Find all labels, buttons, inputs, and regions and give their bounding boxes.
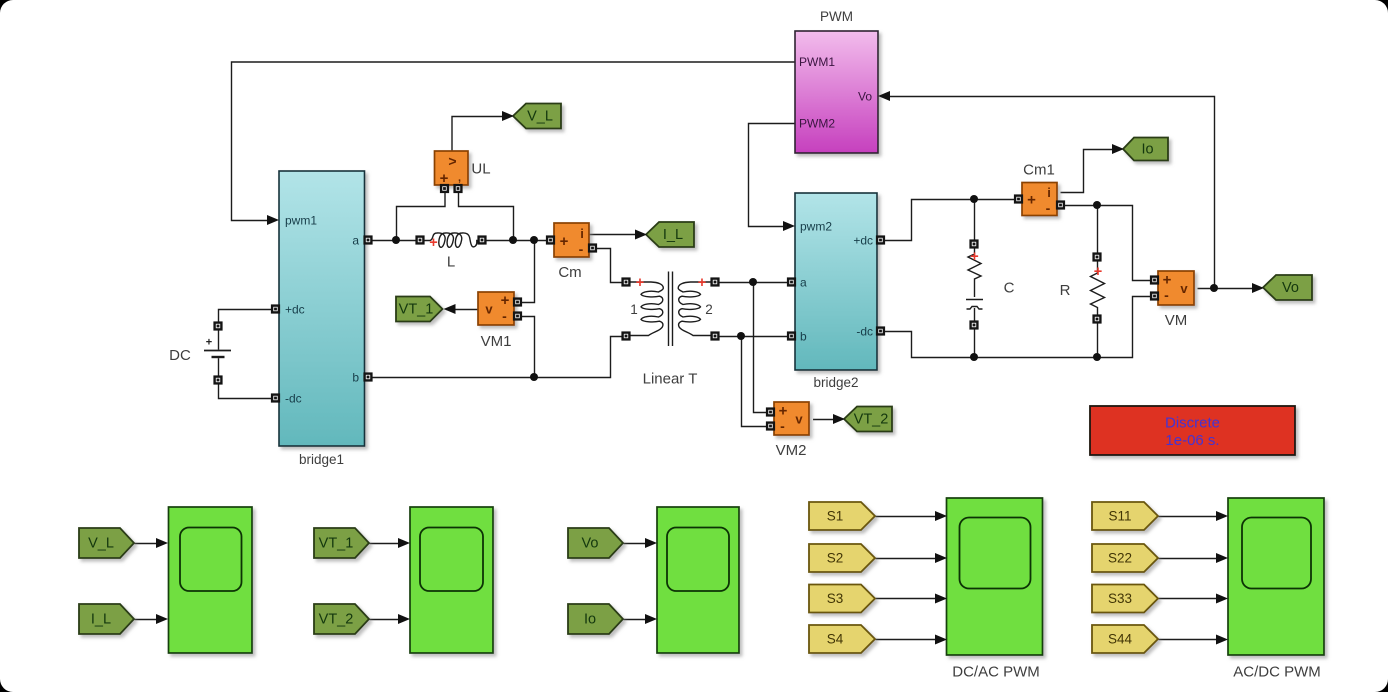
Discrete solver block	[1090, 406, 1295, 455]
port square VM2 minus	[767, 423, 774, 430]
svg-text:VT_2: VT_2	[319, 612, 354, 628]
port square UL in2	[455, 185, 462, 192]
svg-text:AC/DC PWM: AC/DC PWM	[1233, 664, 1321, 681]
wire transformer winding2 bottom to bridge2 b	[719, 336, 789, 338]
wire node D to VM2 minus	[742, 337, 768, 427]
scope2 VT_1 VT_2	[410, 507, 493, 653]
wire capacitor C bottom drop	[974, 329, 976, 358]
wire Cm minus to transformer winding1 top	[593, 249, 624, 283]
wire bridge1 a to inductor L	[366, 240, 418, 242]
junction Vo feedback	[1210, 284, 1218, 292]
svg-text:-: -	[579, 241, 584, 257]
svg-text:a: a	[800, 276, 807, 290]
wire inductor L to Cm plus	[486, 240, 552, 242]
junction top rail R	[1093, 201, 1101, 209]
port square VM1 minus	[514, 313, 521, 320]
voltage sensor UL	[435, 151, 469, 185]
svg-text:v: v	[485, 302, 493, 317]
svg-text:-: -	[780, 418, 785, 434]
arrowhead scope4 in4	[935, 635, 947, 645]
svg-text:I_L: I_L	[91, 612, 111, 628]
goto tag I_L	[646, 222, 694, 247]
port square UL in1	[441, 185, 448, 192]
junction node C	[749, 278, 757, 286]
svg-text:Cm1: Cm1	[1023, 162, 1055, 179]
arrowhead into I_L goto	[635, 230, 647, 240]
wire UL right tap	[459, 189, 514, 241]
inductor L	[417, 233, 479, 247]
wire Vo from to scope3	[624, 543, 648, 545]
linear transformer winding 2	[678, 282, 715, 336]
svg-text:+: +	[636, 275, 644, 291]
svg-text:pwm2: pwm2	[800, 220, 832, 234]
svg-text:+: +	[1163, 272, 1172, 289]
svg-text:+dc: +dc	[285, 303, 305, 317]
svg-text:DC: DC	[169, 347, 191, 364]
wire S3 to scope4	[876, 598, 938, 600]
port square transformer 2 bottom	[712, 333, 719, 340]
junction node B	[530, 373, 538, 381]
port square L left	[417, 237, 424, 244]
svg-text:S44: S44	[1108, 632, 1133, 647]
linear transformer core	[669, 272, 673, 347]
wire S1 to scope4	[876, 516, 938, 518]
svg-text:b: b	[800, 330, 807, 344]
arrowhead into PWM Vo input	[878, 91, 890, 101]
voltage sensor VM2	[774, 402, 809, 435]
wire V_L from to scope1	[135, 543, 159, 545]
arrowhead scope2 in2	[398, 614, 410, 624]
svg-text:+dc: +dc	[853, 234, 873, 248]
wire UL left tap	[397, 189, 446, 241]
svg-text:-: -	[502, 308, 507, 324]
arrowhead scope1 in1	[156, 538, 168, 548]
port square bridge2 -dc	[877, 328, 884, 335]
arrowhead into VT_1 goto	[444, 304, 456, 314]
svg-text:PWM2: PWM2	[799, 117, 835, 131]
arrowhead scope3 in1	[645, 538, 657, 548]
svg-text:+: +	[560, 233, 569, 250]
DC source battery	[204, 330, 231, 377]
svg-text:V_L: V_L	[527, 109, 553, 125]
goto tag V_L	[513, 104, 561, 129]
svg-text:S4: S4	[827, 632, 844, 647]
voltage sensor VM	[1158, 271, 1194, 305]
arrowhead scope3 in2	[645, 614, 657, 624]
svg-text:S3: S3	[827, 591, 844, 606]
port square R bottom	[1094, 316, 1101, 323]
port square Cm plus	[547, 237, 554, 244]
svg-text:R: R	[1060, 282, 1071, 299]
arrowhead into bridge1 pwm1	[267, 215, 279, 225]
wire DC source minus to bridge1 -dc	[219, 384, 273, 399]
wire node C to VM2 plus	[754, 283, 768, 413]
arrowhead scope5 in3	[1216, 594, 1228, 604]
scope1 V_L I_L	[169, 507, 253, 653]
svg-text:-dc: -dc	[285, 392, 302, 406]
wire bridge2 -dc bottom rail to VM minus	[882, 297, 1153, 358]
wire DC source plus to bridge1 +dc	[219, 310, 273, 324]
svg-text:+: +	[698, 275, 706, 291]
arrowhead scope4 in2	[935, 553, 947, 563]
port square VM2 plus	[767, 409, 774, 416]
wire Cm1 minus rail to VM plus	[1061, 206, 1153, 281]
svg-text:DC/AC PWM: DC/AC PWM	[952, 664, 1040, 681]
wire bridge1 b rail to transformer winding1 bottom	[366, 337, 624, 378]
from tag S3	[809, 585, 875, 613]
svg-text:-: -	[1046, 200, 1051, 216]
linear transformer winding 1	[626, 282, 663, 336]
port square bridge2 +dc	[877, 237, 884, 244]
arrowhead scope2 in1	[398, 538, 410, 548]
port square bridge1 a	[365, 237, 372, 244]
arrowhead into V_L goto	[502, 111, 514, 121]
wire UL output to V_L goto	[452, 117, 504, 154]
svg-text:S1: S1	[827, 509, 844, 524]
port square VM1 plus	[514, 299, 521, 306]
port square bridge2 a	[788, 279, 795, 286]
from tag Vo	[568, 528, 623, 558]
port square transformer 1 bottom	[623, 333, 630, 340]
svg-text:v: v	[1180, 281, 1188, 296]
svg-text:VT_1: VT_1	[399, 302, 434, 318]
svg-text:+: +	[970, 249, 978, 265]
port square VM minus	[1151, 293, 1158, 300]
svg-text:b: b	[352, 371, 359, 385]
wire PWM2 to bridge2 pwm2	[749, 124, 796, 227]
wire Vo feedback to PWM Vo input	[890, 97, 1215, 289]
wire VM1 minus to node B	[518, 317, 535, 378]
svg-text:PWM1: PWM1	[799, 55, 835, 69]
svg-text:pwm1: pwm1	[285, 214, 317, 228]
arrowhead scope4 in3	[935, 594, 947, 604]
arrowhead into VT_2 goto	[833, 414, 845, 424]
wire S2 to scope4	[876, 558, 938, 560]
scope5 AC/DC PWM	[1228, 498, 1324, 655]
svg-text:,: ,	[458, 172, 461, 184]
wire bridge2 +dc to top rail and Cm1 plus	[882, 200, 1016, 241]
arrowhead scope4 in1	[935, 511, 947, 521]
port square L right	[479, 237, 486, 244]
svg-text:bridge1: bridge1	[299, 452, 344, 467]
from tag VT_2	[314, 604, 369, 634]
from tag S11	[1092, 502, 1158, 530]
wire S44 to scope5	[1159, 639, 1219, 641]
from tag S2	[809, 544, 875, 572]
port square C top	[971, 241, 978, 248]
svg-text:UL: UL	[471, 161, 490, 178]
port square R top	[1094, 254, 1101, 261]
resistor R element	[1091, 261, 1105, 316]
arrowhead scope5 in1	[1216, 511, 1228, 521]
svg-text:bridge2: bridge2	[813, 375, 858, 390]
svg-text:1e-06 s.: 1e-06 s.	[1165, 432, 1219, 449]
svg-text:V_L: V_L	[88, 536, 114, 552]
goto tag Vo	[1263, 275, 1312, 300]
port square VM plus	[1151, 277, 1158, 284]
wire S4 to scope4	[876, 639, 938, 641]
svg-text:Discrete: Discrete	[1165, 415, 1220, 432]
svg-text:Cm: Cm	[558, 264, 581, 281]
svg-text:+: +	[1094, 264, 1102, 280]
port square bridge1 b	[365, 374, 372, 381]
arrowhead scope5 in2	[1216, 553, 1228, 563]
wire S22 to scope5	[1159, 558, 1219, 560]
wire Cm1 i output to Io goto	[1061, 150, 1114, 193]
arrowhead scope5 in4	[1216, 635, 1228, 645]
arrowhead scope1 in2	[156, 614, 168, 624]
svg-text:Io: Io	[584, 612, 596, 628]
svg-text:i: i	[1047, 185, 1051, 200]
port square Cm minus	[589, 245, 596, 252]
wire VM v output to Vo goto	[1198, 288, 1254, 290]
svg-text:-dc: -dc	[856, 325, 873, 339]
port square Cm1 plus	[1015, 196, 1022, 203]
voltage sensor VM1	[478, 292, 514, 325]
svg-text:VM1: VM1	[481, 333, 512, 350]
port square Cm1 minus	[1057, 202, 1064, 209]
wire VM2 v output to VT_2 goto	[813, 419, 835, 421]
current sensor Cm	[554, 223, 589, 257]
svg-text:v: v	[795, 412, 803, 427]
junction node A2	[509, 236, 517, 244]
wire VT_1 from to scope2	[370, 543, 401, 545]
wire resistor R top drop	[1097, 206, 1099, 255]
svg-text:>: >	[448, 153, 456, 169]
svg-text:S22: S22	[1108, 551, 1132, 566]
port square battery plus	[215, 323, 222, 330]
port square battery minus	[215, 377, 222, 384]
junction node D	[737, 332, 745, 340]
wire PWM1 to bridge1 pwm1	[232, 62, 796, 221]
wire Io from to scope3	[624, 619, 648, 621]
svg-text:Vo: Vo	[582, 536, 599, 552]
arrowhead into Io goto	[1112, 144, 1124, 154]
goto tag Io	[1123, 138, 1168, 161]
from tag V_L	[79, 528, 134, 558]
wire VM1 v output to VT_1 goto	[447, 309, 479, 311]
svg-text:VT_2: VT_2	[854, 412, 889, 428]
svg-text:2: 2	[705, 302, 713, 317]
wire resistor R bottom drop	[1097, 323, 1099, 358]
svg-text:Linear T: Linear T	[643, 371, 698, 388]
junction top rail C	[970, 195, 978, 203]
wire VT_2 from to scope2	[370, 619, 401, 621]
port square transformer 2 top	[712, 279, 719, 286]
svg-text:+: +	[429, 235, 437, 251]
svg-text:Vo: Vo	[858, 90, 872, 104]
arrowhead into bridge2 pwm2	[783, 221, 795, 231]
scope3 Vo Io	[657, 507, 739, 653]
from tag S44	[1092, 625, 1158, 653]
wire S33 to scope5	[1159, 598, 1219, 600]
svg-text:-: -	[1164, 287, 1169, 303]
wire I_L from to scope1	[135, 619, 159, 621]
svg-text:S2: S2	[827, 551, 844, 566]
svg-text:I_L: I_L	[663, 227, 683, 243]
junction bottom rail C	[970, 353, 978, 361]
svg-text:C: C	[1004, 280, 1015, 297]
svg-text:a: a	[352, 234, 359, 248]
svg-text:+: +	[206, 337, 212, 349]
svg-text:VT_1: VT_1	[319, 536, 354, 552]
from tag S4	[809, 625, 875, 653]
port square bridge2 b	[788, 333, 795, 340]
from tag S22	[1092, 544, 1158, 572]
junction node A3	[530, 236, 538, 244]
port square bridge1 +dc	[272, 306, 279, 313]
port square bridge1 -dc	[272, 395, 279, 402]
from tag VT_1	[314, 528, 369, 558]
wire capacitor C top drop	[974, 200, 976, 242]
junction bottom rail R	[1093, 353, 1101, 361]
from tag S1	[809, 502, 875, 530]
scope4 DC/AC PWM	[947, 498, 1043, 655]
subsystem PWM	[795, 31, 878, 153]
svg-text:VM: VM	[1165, 312, 1188, 329]
svg-text:PWM: PWM	[820, 9, 853, 24]
junction node A1	[392, 236, 400, 244]
svg-text:S11: S11	[1108, 509, 1131, 524]
port square C bottom	[971, 322, 978, 329]
capacitor branch C element	[966, 248, 983, 322]
svg-text:i: i	[580, 226, 584, 241]
capacitor C bottom plate	[967, 307, 983, 310]
svg-text:VM2: VM2	[776, 442, 807, 459]
wire VM1 plus tap from node A	[518, 241, 535, 303]
from tag S33	[1092, 585, 1158, 613]
wire Cm i output to I_L goto	[590, 234, 637, 236]
arrowhead into Vo goto	[1252, 283, 1264, 293]
wire S11 to scope5	[1159, 516, 1219, 518]
svg-text:+: +	[1027, 192, 1036, 209]
current sensor Cm1	[1022, 183, 1057, 216]
wire transformer winding2 top to bridge2 a	[719, 282, 789, 284]
subsystem bridge2	[795, 193, 877, 370]
svg-text:Io: Io	[1141, 142, 1153, 158]
from tag Io	[568, 604, 623, 634]
svg-text:Vo: Vo	[1282, 280, 1299, 296]
goto tag VT_2	[844, 407, 892, 432]
from tag I_L	[79, 604, 134, 634]
goto tag VT_1	[396, 297, 443, 322]
svg-text:S33: S33	[1108, 591, 1132, 606]
svg-text:L: L	[447, 254, 455, 271]
port square transformer 1 top	[623, 279, 630, 286]
svg-text:1: 1	[630, 302, 638, 317]
subsystem bridge1	[279, 171, 365, 446]
svg-text:+: +	[501, 292, 510, 309]
svg-text:+: +	[779, 403, 788, 420]
